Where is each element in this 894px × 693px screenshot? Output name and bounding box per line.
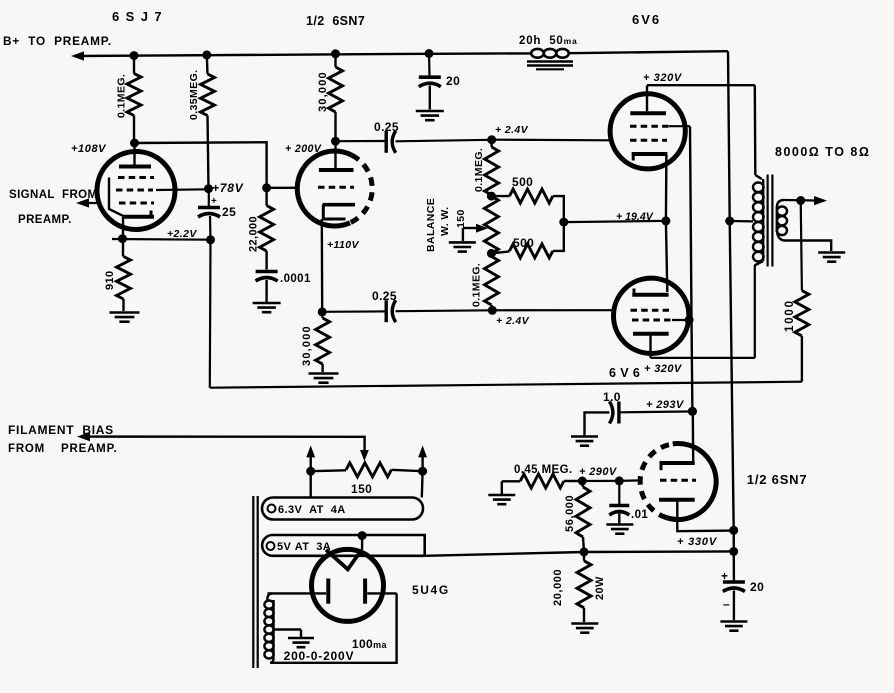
resistor R10 30,000 cathode load bbox=[316, 312, 330, 372]
label 6V6 top bbox=[632, 12, 661, 27]
resistor R8 500 bottom bbox=[491, 222, 563, 258]
svg-text:56,000: 56,000 bbox=[564, 495, 576, 532]
capacitor C3 20 bbox=[419, 54, 441, 110]
svg-text:20: 20 bbox=[446, 74, 460, 88]
label 1000 bbox=[784, 299, 796, 332]
arrow heater right bbox=[418, 445, 427, 471]
label +110V bbox=[327, 239, 359, 251]
transformer T1 primary winding bbox=[753, 175, 764, 266]
label +320V bottom bbox=[644, 363, 683, 375]
svg-text:+110V: +110V bbox=[327, 239, 359, 251]
potentiometer 150 balance bbox=[484, 196, 498, 253]
tube V4 control grid bbox=[631, 309, 670, 312]
svg-text:6.3V AT 4A: 6.3V AT 4A bbox=[278, 504, 346, 516]
label 1/2 6SN7 (top) bbox=[306, 14, 365, 28]
wire filament bias bbox=[81, 437, 365, 451]
wire secondary top / output bbox=[784, 199, 817, 202]
node +19.4V bbox=[661, 216, 670, 225]
label 20h 50ma bbox=[519, 35, 578, 47]
svg-text:+78V: +78V bbox=[212, 181, 244, 195]
svg-text:+ 320V: + 320V bbox=[643, 72, 683, 84]
svg-text:6 V 6: 6 V 6 bbox=[609, 366, 640, 380]
capacitor C8 20 electrolytic bbox=[723, 582, 745, 620]
label 100ma bbox=[352, 637, 388, 651]
label 0.45 MEG. bbox=[514, 464, 573, 476]
tube V6 1/2 6SN7 envelope solid part bbox=[667, 444, 716, 520]
svg-text:.01: .01 bbox=[631, 509, 648, 521]
wire HV bottom loop bbox=[270, 593, 397, 662]
transformer T2 HV winding bbox=[264, 593, 273, 662]
label +78V bbox=[212, 181, 244, 195]
tube V5 plate left bbox=[268, 579, 329, 604]
node +293V bbox=[688, 407, 697, 416]
label 1/2 6SN7 bottom bbox=[747, 472, 808, 487]
svg-text:FROM PREAMP.: FROM PREAMP. bbox=[8, 443, 118, 455]
svg-text:150: 150 bbox=[455, 209, 467, 228]
node +200V plate 6SN7 bbox=[331, 137, 340, 146]
arrow output bbox=[814, 196, 827, 205]
node B+ takeoff bbox=[729, 547, 738, 556]
tube V5 filament bbox=[326, 536, 362, 570]
ground for C6 bbox=[606, 525, 633, 534]
svg-text:B+ TO PREAMP.: B+ TO PREAMP. bbox=[3, 34, 112, 48]
svg-text:+2.2V: +2.2V bbox=[167, 228, 197, 240]
wire center tap bbox=[730, 220, 753, 223]
svg-text:+ 293V: + 293V bbox=[646, 399, 685, 411]
label 0.25 (C4) bbox=[374, 120, 399, 134]
svg-text:20,000: 20,000 bbox=[552, 569, 564, 606]
node V4 screen to rail bbox=[685, 316, 694, 325]
tube V2 plate bbox=[319, 141, 354, 170]
tube V1 cathode bbox=[123, 211, 154, 239]
ground for R13 bbox=[488, 481, 515, 504]
svg-text:+108V: +108V bbox=[71, 143, 107, 155]
label - of C8 bbox=[723, 597, 730, 611]
arrow B+ to preamp bbox=[71, 51, 84, 60]
label +200V bbox=[285, 143, 322, 155]
svg-text:500: 500 bbox=[513, 236, 534, 250]
resistor R12 150 hum pot bbox=[311, 463, 423, 477]
label R1 0.1MEG. bbox=[116, 74, 128, 118]
transformer T2 6.3V winding bbox=[262, 498, 423, 520]
svg-text:BALANCE: BALANCE bbox=[425, 198, 437, 252]
capacitor C5 0.25 bottom bbox=[322, 300, 492, 322]
svg-text:20: 20 bbox=[750, 580, 764, 594]
label +2.2V bbox=[167, 228, 197, 240]
label 1.0 (C7) bbox=[603, 390, 621, 404]
label B+ TO PREAMP. bbox=[3, 34, 112, 48]
label 0.25 (C5) bbox=[372, 289, 397, 303]
ground for C8 bbox=[720, 622, 747, 631]
tube V4 6V6 envelope bbox=[614, 278, 689, 353]
tube V1 screen grid bbox=[116, 188, 209, 192]
svg-text:0.1MEG.: 0.1MEG. bbox=[473, 148, 485, 192]
tube V5 5U4G envelope bbox=[312, 549, 384, 621]
svg-text:1.0: 1.0 bbox=[603, 390, 621, 404]
capacitor C7 1.0 bbox=[585, 402, 689, 436]
wire B+ rail vertical bbox=[730, 221, 734, 581]
node 6SN7 cathode bbox=[318, 307, 327, 316]
svg-text:1000: 1000 bbox=[784, 299, 796, 332]
node grid/.01 bbox=[615, 476, 624, 485]
resistor R9 0.1MEG bottom bbox=[485, 253, 499, 310]
tube V3 cathode bbox=[632, 154, 668, 221]
node 500s junction bbox=[559, 218, 568, 227]
ground for C2 bbox=[253, 303, 281, 312]
node top rail junction 2 bbox=[202, 50, 211, 59]
ground for C7 bbox=[571, 437, 598, 446]
tube V6 cathode bbox=[660, 413, 695, 470]
label 20 (C8) bbox=[750, 580, 764, 594]
wire B+ rail top bbox=[75, 51, 730, 221]
svg-text:+: + bbox=[721, 569, 728, 583]
svg-text:30,000: 30,000 bbox=[301, 325, 313, 366]
wire +2.2V down bbox=[209, 240, 212, 388]
transformer T1 core bbox=[768, 175, 773, 267]
svg-text:25: 25 bbox=[222, 205, 236, 219]
wire to +19.4V bbox=[564, 221, 666, 222]
tube V5 plate right bbox=[365, 579, 397, 604]
svg-text:+: + bbox=[211, 196, 217, 207]
node heater left bbox=[306, 467, 315, 476]
resistor R7 500 bbox=[491, 189, 563, 222]
label 500 bottom bbox=[513, 236, 534, 250]
tube V6 plate bbox=[659, 500, 734, 532]
node plate to rail bbox=[729, 526, 738, 535]
arrow heater left bbox=[306, 445, 315, 471]
wire +2.4V to 6V6 grid bbox=[492, 139, 611, 142]
label 6V6 bottom bbox=[609, 366, 640, 380]
node top rail junction 3 bbox=[331, 49, 340, 58]
label 56,000 bbox=[564, 495, 576, 532]
svg-text:PREAMP.: PREAMP. bbox=[18, 214, 72, 226]
label 5U4G bbox=[412, 583, 450, 597]
svg-text:0.45 MEG.: 0.45 MEG. bbox=[514, 464, 573, 476]
tube V3 6V6 envelope bbox=[610, 94, 685, 169]
node top rail junction 1 bbox=[130, 51, 139, 60]
label 25 bbox=[222, 205, 236, 219]
wire cathodes link bbox=[666, 221, 667, 292]
svg-text:100ma: 100ma bbox=[352, 637, 388, 651]
wire feedback vertical bbox=[801, 201, 802, 291]
svg-text:0.1MEG.: 0.1MEG. bbox=[116, 74, 128, 118]
label R6 0.1MEG. bbox=[473, 148, 485, 192]
tube V4 cathode bbox=[632, 289, 668, 295]
node 56k/20k junction bbox=[580, 547, 589, 556]
svg-text:FILAMENT BIAS: FILAMENT BIAS bbox=[8, 423, 114, 437]
label + of C8 bbox=[721, 569, 728, 583]
svg-text:910: 910 bbox=[104, 270, 116, 290]
label R2 0.35MEG. bbox=[188, 70, 200, 120]
wire feedback horizontal bbox=[210, 382, 802, 388]
svg-text:200-0-200V: 200-0-200V bbox=[284, 649, 355, 663]
resistor R11 1000 bbox=[795, 291, 809, 382]
label SIGNAL FROM bbox=[9, 189, 98, 201]
label 20,000 bbox=[552, 569, 564, 606]
ground for wiper bbox=[449, 242, 476, 251]
wire 6V6 plate to OPT top bbox=[647, 85, 755, 175]
wire 6SJ7 plate to 6SN7 grid bbox=[135, 142, 300, 188]
label 150 pot bbox=[455, 209, 467, 228]
tube V1 6SJ7 envelope bbox=[97, 152, 175, 230]
capacitor C4 0.25 bbox=[336, 131, 492, 153]
svg-text:+ 290V: + 290V bbox=[579, 466, 618, 478]
svg-text:20W: 20W bbox=[594, 576, 606, 600]
label +108V bbox=[71, 143, 107, 155]
label BALANCE bbox=[425, 198, 437, 252]
svg-text:.0001: .0001 bbox=[280, 273, 311, 285]
label +330V bbox=[677, 536, 718, 548]
tube V6 envelope dashed part bbox=[640, 444, 673, 518]
tube V2 cathode bbox=[322, 205, 355, 312]
svg-text:6V6: 6V6 bbox=[632, 12, 661, 27]
node R6/R7/pot junction bbox=[487, 192, 496, 201]
label +19.4V bbox=[616, 211, 654, 223]
resistor R2 0.35MEG bbox=[201, 55, 215, 189]
svg-text:0.1MEG.: 0.1MEG. bbox=[471, 263, 483, 307]
transformer T2 core bbox=[253, 496, 257, 668]
tube V6 grid bbox=[660, 479, 696, 482]
label 910 bbox=[104, 270, 116, 290]
svg-text:30,000: 30,000 bbox=[317, 71, 329, 112]
resistor R5 30,000 bbox=[329, 54, 343, 141]
label +2.4V top bbox=[495, 124, 529, 136]
ground for R15 bbox=[571, 624, 598, 633]
tube V4 plate bbox=[633, 334, 669, 358]
arrow filament bias bbox=[77, 432, 90, 441]
tube V1 suppressor grid bbox=[118, 176, 154, 179]
tube V3 screen grid bbox=[630, 125, 690, 128]
svg-text:22,000: 22,000 bbox=[248, 216, 260, 252]
node +2.2V bbox=[206, 235, 215, 244]
svg-text:8000Ω TO 8Ω: 8000Ω TO 8Ω bbox=[775, 145, 870, 159]
svg-text:+ 320V: + 320V bbox=[644, 363, 683, 375]
node pot bottom bbox=[487, 249, 496, 258]
tube V3 plate bbox=[630, 85, 666, 113]
label 20 (C3) bbox=[446, 74, 460, 88]
wire V4 plate to OPT bottom bbox=[651, 265, 755, 358]
choke L1 20h 50ma bbox=[527, 49, 573, 69]
label +293V bbox=[646, 399, 685, 411]
wire secondary bottom to ground bbox=[785, 240, 831, 251]
label +290V bbox=[579, 466, 618, 478]
wire +290V to grid bbox=[582, 480, 619, 482]
label 6.3V AT 4A bbox=[268, 504, 346, 516]
label W.W. bbox=[439, 207, 451, 236]
ground for C3 bbox=[416, 111, 444, 120]
svg-text:0.35MEG.: 0.35MEG. bbox=[188, 70, 200, 120]
label R5 30,000 bbox=[317, 71, 329, 112]
node +78V screen bbox=[204, 184, 213, 193]
svg-text:+ 330V: + 330V bbox=[677, 536, 718, 548]
label + of C1 bbox=[211, 196, 217, 207]
capacitor C2 .0001 bbox=[256, 272, 278, 303]
resistor R4 22,000 bbox=[260, 188, 274, 270]
svg-text:SIGNAL FROM: SIGNAL FROM bbox=[9, 189, 98, 201]
node 5V winding tap bbox=[358, 531, 367, 540]
transformer T2 5V winding bbox=[262, 535, 425, 556]
arrow signal input bbox=[76, 198, 89, 207]
node feedback takeoff bbox=[796, 196, 805, 205]
resistor R3 910 bbox=[117, 239, 131, 311]
label +2.4V bottom bbox=[496, 315, 530, 327]
tube V1 suppressor-cathode tie bbox=[109, 178, 124, 217]
tube V2 grid bbox=[318, 186, 354, 189]
wire screen rail bbox=[690, 126, 692, 411]
label 8000 TO 8 ohms bbox=[775, 145, 870, 159]
label 20W bbox=[594, 576, 606, 600]
svg-text:150: 150 bbox=[351, 482, 372, 496]
node B+ rail / OPT center tap bbox=[725, 217, 734, 226]
label FROM PREAMP. bbox=[8, 443, 118, 455]
label 500 top bbox=[512, 175, 533, 189]
label 200-0-200V bbox=[284, 649, 355, 663]
tube V4 screen grid bbox=[632, 319, 689, 322]
svg-text:0.25: 0.25 bbox=[372, 289, 397, 303]
label R9 0.1MEG. bbox=[471, 263, 483, 307]
svg-text:W. W.: W. W. bbox=[439, 207, 451, 236]
node cathode 6SJ7 bbox=[118, 234, 127, 243]
tube V3 control grid bbox=[630, 139, 667, 142]
wire 5V to B+ takeoff bbox=[425, 551, 734, 555]
capacitor C1 25 electrolytic bbox=[198, 189, 220, 240]
label 6SJ7 bbox=[112, 9, 163, 24]
svg-text:+ 19.4V: + 19.4V bbox=[616, 211, 654, 223]
label +320V top bbox=[643, 72, 683, 84]
label PREAMP. bbox=[18, 214, 72, 226]
label 5V AT 3A bbox=[267, 541, 332, 553]
tube V1 control grid bbox=[80, 202, 154, 205]
pot wiper arrow bbox=[463, 224, 488, 241]
svg-text:20h 50ma: 20h 50ma bbox=[519, 35, 578, 47]
svg-text:6 S J 7: 6 S J 7 bbox=[112, 9, 163, 24]
svg-text:500: 500 bbox=[512, 175, 533, 189]
ground secondary bbox=[818, 253, 845, 262]
svg-text:5V AT 3A: 5V AT 3A bbox=[277, 541, 331, 553]
svg-text:+ 2.4V: + 2.4V bbox=[496, 315, 530, 327]
wire grid lead bbox=[619, 479, 640, 482]
transformer T2 center tap ground bbox=[274, 630, 314, 648]
node +2.4V bottom bbox=[488, 306, 497, 315]
resistor R13 0.45MEG bbox=[502, 474, 583, 488]
svg-text:+ 2.4V: + 2.4V bbox=[495, 124, 529, 136]
node +290V bbox=[578, 477, 587, 486]
svg-text:1/2 6SN7: 1/2 6SN7 bbox=[747, 472, 808, 487]
wire heater right down bbox=[421, 471, 424, 497]
wire cathode to +2.2V node bbox=[112, 238, 211, 241]
wire +2.4V bottom to 6V6 grid bbox=[492, 309, 614, 311]
label .0001 bbox=[280, 273, 311, 285]
resistor R6 0.1MEG bbox=[485, 140, 499, 196]
svg-text:1/2 6SN7: 1/2 6SN7 bbox=[306, 14, 365, 28]
node +108V plate 6SJ7 bbox=[130, 139, 139, 148]
label 150 filament bbox=[351, 482, 372, 496]
label 22,000 bbox=[248, 216, 260, 252]
node heater right bbox=[418, 467, 427, 476]
node top rail junction 4 bbox=[425, 49, 434, 58]
resistor R15 20,000 20W bbox=[577, 552, 591, 622]
arrow wiper 150 filament pot bbox=[360, 450, 369, 461]
resistor R14 56,000 bbox=[576, 481, 590, 552]
resistor R1 0.1MEG bbox=[127, 56, 141, 143]
svg-text:5U4G: 5U4G bbox=[412, 583, 450, 597]
node grid 6SN7 / 22k bbox=[262, 183, 271, 192]
label R10 30,000 bbox=[301, 325, 313, 366]
tube V1 plate bbox=[119, 143, 151, 167]
ground for R3 bbox=[110, 313, 140, 322]
node +2.4V top bbox=[487, 135, 496, 144]
transformer T1 secondary winding bbox=[777, 200, 787, 241]
tube V2 envelope dashed part bbox=[350, 155, 372, 223]
svg-text:–: – bbox=[723, 597, 730, 611]
label .01 bbox=[631, 509, 648, 521]
label FILAMENT BIAS bbox=[8, 423, 114, 437]
ground for R10 bbox=[309, 374, 339, 383]
tube V2 1/2 6SN7 envelope solid part bbox=[297, 151, 351, 226]
capacitor C6 .01 bbox=[609, 481, 629, 524]
wire heater left down bbox=[310, 471, 312, 497]
svg-text:0.25: 0.25 bbox=[374, 120, 399, 134]
